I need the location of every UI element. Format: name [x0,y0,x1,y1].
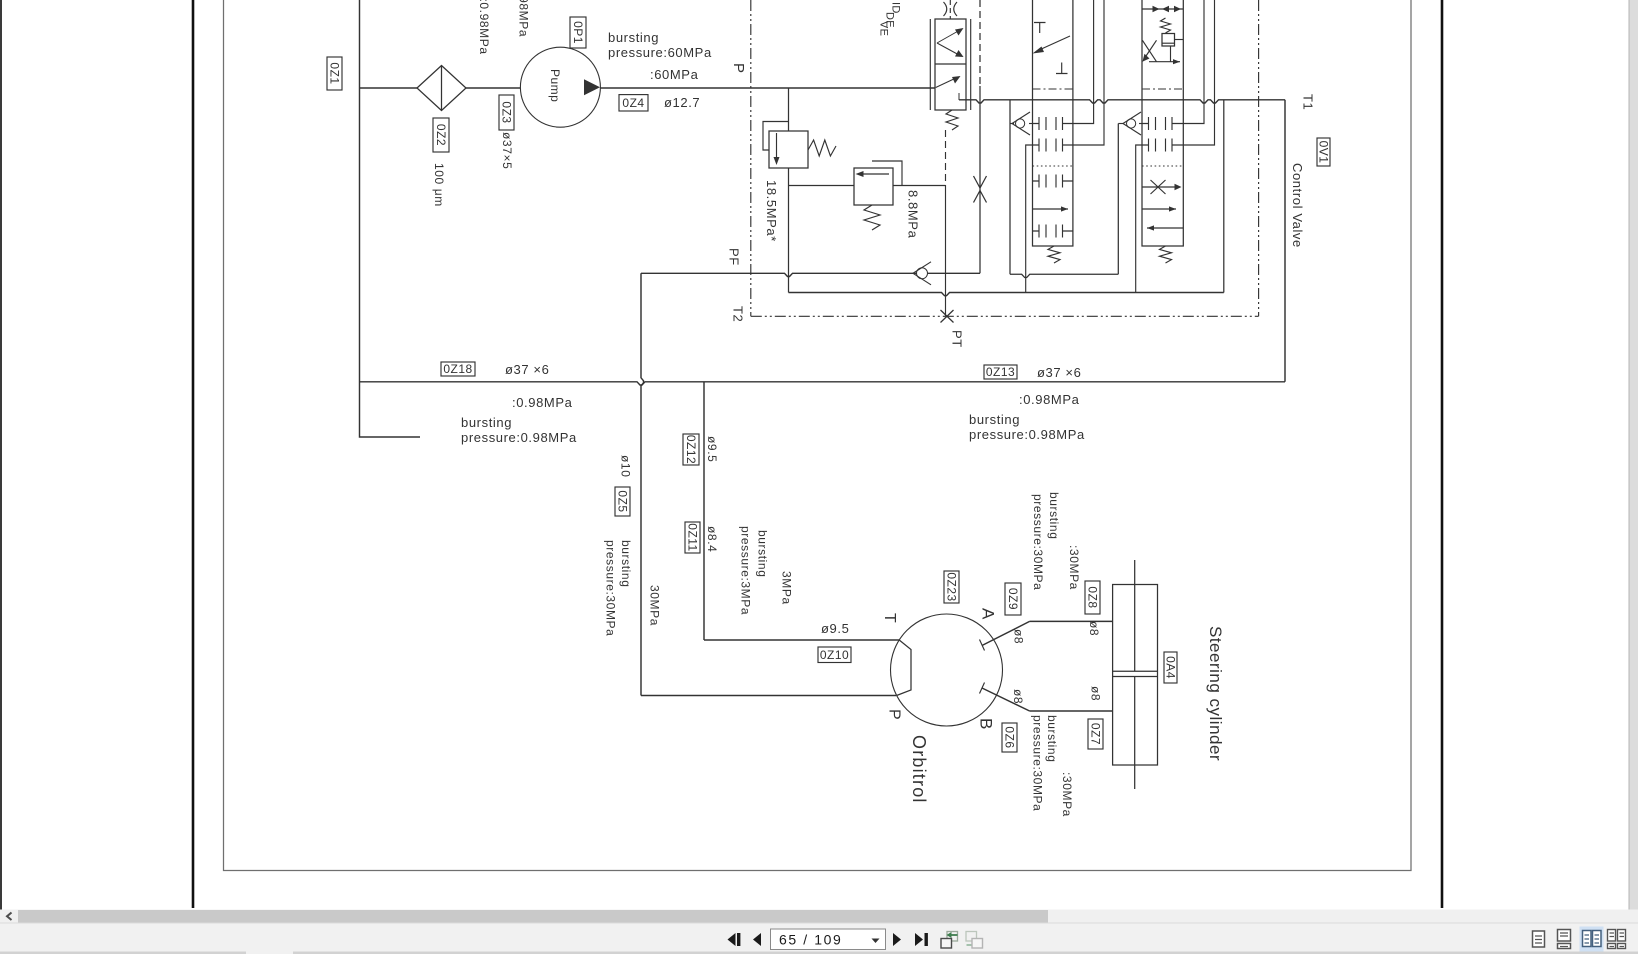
priority valve pilot stub dashed [949,0,951,19]
valve section1 dotted divider [1033,165,1073,167]
wire T1 return vertical x=1285 [1284,100,1286,382]
priority valve side rails [929,19,931,110]
svg-text:ø9.5: ø9.5 [821,621,849,636]
svg-text:ø8: ø8 [1011,629,1025,644]
wire pump suction/pressure line y=88 [360,87,936,89]
throttle on pilot vertical [974,176,987,203]
valve section2 position divider dash-dot [1142,88,1183,90]
control valve envelope left dash-dot [750,0,752,316]
right scrollbar strip [1629,0,1638,954]
nav previous page button [753,933,761,946]
valve section1 blocked port mid [1056,63,1068,74]
window left edge [0,0,2,952]
valve section2 arrow left row [1147,227,1183,229]
wire section2 right loop a [1183,0,1204,124]
check valve on PF drain line [917,268,928,279]
label 0Z6 [1002,723,1017,752]
page number input [771,929,886,950]
svg-text:P: P [730,63,747,74]
orbitrol B diagonal [982,688,1030,711]
svg-text:Orbitrol: Orbitrol [909,735,929,804]
svg-text::30MPa: :30MPa [1060,772,1074,817]
nav last page button [915,933,923,946]
label 0Z3 [499,95,514,130]
wire pilot dashed x=945.5 to PT [945,130,947,186]
toolbar background [0,923,1638,954]
svg-text:T1: T1 [1301,94,1316,110]
svg-text:Control Valve: Control Valve [1290,163,1305,248]
horizontal scrollbar thumb [18,910,1048,923]
wire orbitrol T line 0Z10 y=640 [704,639,899,641]
label 0Z11 [685,522,700,553]
wire section2 left loop row2 [1136,145,1142,293]
relief valve 18.5MPa offset outline [763,122,789,151]
svg-text:VE: VE [878,21,890,36]
wire suction vertical 0Z1 line [360,0,421,437]
svg-text::0.98MPa: :0.98MPa [1019,392,1080,407]
label 0A4 [1164,652,1177,683]
wire section2 feed vertical x=1118.3 [1117,124,1119,275]
svg-text:pressure:60MPa: pressure:60MPa [608,45,712,60]
steering cylinder piston [1113,670,1158,672]
svg-text:PT: PT [950,330,965,348]
valve section2 spring [1160,246,1172,263]
relief valve 8.8MPa arrow [860,173,889,175]
relief valve 8.8MPa offset outline [872,161,902,186]
wire 0Z12/0Z11 vertical x=704 [703,382,705,640]
svg-text:0Z23: 0Z23 [945,572,959,601]
svg-text:ø8: ø8 [1087,621,1101,636]
valve section1 lower arrow row [1033,208,1069,210]
svg-text:ø8: ø8 [1088,686,1102,701]
svg-text:0A4: 0A4 [1164,656,1178,679]
priority valve spring [946,110,958,130]
layout icon facing continuous [1608,930,1616,942]
relief valve 8.8MPa body [854,168,893,205]
svg-text:Pump: Pump [548,69,562,102]
wire section1 feed vertical x=1010 [1009,100,1011,274]
wire B line to cylinder [1030,710,1113,712]
label 0Z4 [619,95,648,111]
svg-text:bursting: bursting [755,530,769,578]
valve section1 lower row3 ticks [1033,175,1073,188]
wire L2 riser x=1223.8 [1223,100,1225,293]
svg-text:ø9.5: ø9.5 [705,436,719,462]
svg-text:0Z13: 0Z13 [986,365,1015,379]
valve section2 compensator box [1162,34,1175,47]
previous page right border [192,0,195,908]
restrictor above priority valve [944,2,958,16]
valve section2 lower throttle arrow row [1142,186,1179,188]
priority valve body [935,19,966,110]
valve section2 top throttle row [1142,8,1183,10]
valve section2 compensator drop [1170,46,1172,62]
wire section1 right loop b [1073,0,1104,145]
svg-text:0Z3: 0Z3 [500,101,514,123]
svg-text:bursting: bursting [1047,492,1061,540]
svg-text:0P1: 0P1 [571,21,585,44]
valve section1 flow diagonal arrow [1038,36,1070,51]
valve section2 mid arrow row [1149,61,1180,63]
svg-text:pressure:30MPa: pressure:30MPa [1031,494,1045,590]
svg-text:3MPa: 3MPa [779,571,793,605]
svg-text:0Z11: 0Z11 [686,523,700,551]
wire bridge y=274.3 [1010,274,1118,277]
svg-text:Steering cylinder: Steering cylinder [1206,626,1225,761]
plugged port PT cross [941,310,954,323]
wire section1 right loop a [1073,0,1094,124]
filter 0Z2 diamond [417,66,466,111]
svg-text:bursting: bursting [461,415,512,430]
wire pilot vertical x=980 [979,0,981,86]
relief valve 18.5MPa arrow [776,133,778,160]
layout icon facing selected [1580,927,1604,952]
wire drain line PF y=273.3 [641,273,980,276]
svg-text:0Z9: 0Z9 [1006,588,1020,610]
svg-text:P: P [886,709,903,720]
valve section2 port row1 ticks [1142,117,1183,130]
nav first page button [728,933,736,946]
svg-text:0Z2: 0Z2 [434,124,448,146]
check valve section2 [1118,123,1124,125]
wire section1 left loop row2 [1026,145,1033,293]
scrollbar left chevron [7,913,12,921]
svg-text:ø37 ×6: ø37 ×6 [505,362,549,377]
wire 0Z5 vertical x=641 [641,273,644,695]
pump flow triangle [584,79,600,95]
current page right border [1441,0,1444,908]
wire relief-1 vertical x=788.5 [788,88,790,131]
valve section2 body box [1142,0,1183,246]
svg-text:ø37×5: ø37×5 [500,132,514,169]
svg-text:0Z6: 0Z6 [1003,726,1017,748]
valve section1 blocked port top [1034,23,1046,34]
svg-text:T2: T2 [731,306,746,322]
valve section2 pilot cross arrow [1142,40,1156,61]
svg-text:bursting: bursting [969,412,1020,427]
svg-text:ø37 ×6: ø37 ×6 [1037,365,1081,380]
svg-text:0Z4: 0Z4 [622,96,644,110]
label 0Z13 [984,365,1017,379]
valve section2 port row2 ticks [1142,139,1183,152]
steering cylinder 0A4 body [1113,585,1158,766]
valve section2 dotted divider [1142,165,1183,167]
check valve section1 [1010,123,1014,125]
relief valve 8.8MPa spring [864,205,880,230]
svg-text::60MPa: :60MPa [650,67,699,82]
priority valve lower diagonal arrow [936,78,957,88]
layout icon single page [1533,931,1545,947]
valve section1 position divider dash-dot [1033,88,1073,90]
svg-text:pressure:0.98MPa: pressure:0.98MPa [477,0,491,55]
valve section1 port row1 ticks [1033,117,1073,130]
svg-text:8.8MPa: 8.8MPa [906,190,921,239]
valve section1 body box [1033,0,1073,246]
label 0Z18 [441,362,475,376]
svg-text:pressure:3MPa: pressure:3MPa [738,526,752,615]
label 0Z10 [818,647,851,663]
svg-text:0V1: 0V1 [1317,141,1331,164]
wire tank return line 0Z18/0Z13 y=381.8 [360,382,1286,385]
relief valve 18.5MPa body [769,131,808,168]
wire A line to cylinder [1030,620,1113,622]
svg-text:A: A [978,608,997,620]
svg-text:0Z18: 0Z18 [443,362,472,376]
valve section1 spring [1048,246,1060,263]
svg-text:B: B [976,718,995,729]
svg-text:T: T [881,613,898,623]
svg-text:pressure:30MPa: pressure:30MPa [603,540,617,636]
svg-text:ø10: ø10 [618,455,632,477]
priority valve divider arrows [937,30,960,43]
previous view icon [947,932,958,942]
label 0Z2 [433,118,449,152]
svg-text::0.98MPa: :0.98MPa [512,395,573,410]
svg-text:bursting: bursting [1045,715,1059,763]
label 0Z5 [615,487,630,516]
layout icon continuous [1558,930,1571,942]
valve section1 lower row4 ticks [1033,225,1073,238]
svg-text:bursting: bursting [608,30,659,45]
valve section2 arrow right row [1142,208,1176,210]
label 0P1 [570,17,586,48]
label 0V1 [1317,138,1330,166]
svg-text:pressure:0.98MPa: pressure:0.98MPa [461,430,577,445]
wire section2 right loop b [1183,0,1214,145]
svg-text:pressure:0.98MPa: pressure:0.98MPa [969,427,1085,442]
svg-text:ø8: ø8 [1011,689,1025,704]
svg-text:30MPa: 30MPa [647,585,661,626]
pump 0P1 circle [520,47,600,127]
wire tank gallery L2 y=292.5 [789,293,1224,296]
nav next page button [893,933,901,946]
svg-text:ø8.4: ø8.4 [705,526,719,552]
control valve envelope bottom dash-dot [751,315,1259,317]
horizontal scrollbar track [0,910,1638,924]
control valve envelope right dash-dot [1258,0,1260,316]
valve section2 compensator right stub [1175,39,1184,41]
wire relief drain L3 y=185.5 [789,185,855,187]
svg-text::30MPa: :30MPa [1067,545,1081,590]
orbitrol A diagonal [982,621,1030,645]
valve section2 compensator spring [1161,18,1171,33]
relief valve 18.5MPa spring [808,140,836,156]
svg-text:0Z1: 0Z1 [328,62,342,84]
svg-text:100 μm: 100 μm [432,163,446,207]
svg-text:ø12.7: ø12.7 [664,95,700,110]
orbitrol circle 0Z23 [891,614,1003,726]
next view icon greyed [966,932,977,942]
svg-text:65 / 109: 65 / 109 [779,932,842,948]
label 0Z9 [1005,583,1021,615]
label 0Z1 [327,57,342,90]
wire orbitrol P line y=695.5 [641,695,896,697]
svg-text:pressure:30MPa: pressure:30MPa [1030,715,1044,811]
label 0Z7 [1088,719,1103,749]
toolbar bottom edge [0,952,246,954]
svg-text:0Z12: 0Z12 [684,435,698,464]
svg-text::0.98MPa: :0.98MPa [516,0,530,37]
svg-text:18.5MPa*: 18.5MPa* [764,180,779,242]
svg-text:0Z10: 0Z10 [820,648,849,662]
wire valve outlet gallery y=99.8 [959,100,1285,103]
drawing sheet frame [224,0,1412,871]
svg-text:bursting: bursting [619,540,633,588]
orbitrol left chord [897,640,911,696]
svg-text:0Z7: 0Z7 [1089,723,1103,745]
svg-text:0Z8: 0Z8 [1086,586,1100,608]
label 0Z23 [944,571,959,603]
valve section1 port row2 ticks [1033,139,1073,152]
svg-text:0Z5: 0Z5 [616,490,630,512]
svg-text:PF: PF [727,248,742,266]
label 0Z12 [683,434,699,465]
steering cylinder rod [1134,560,1136,671]
label 0Z8 [1085,581,1100,614]
